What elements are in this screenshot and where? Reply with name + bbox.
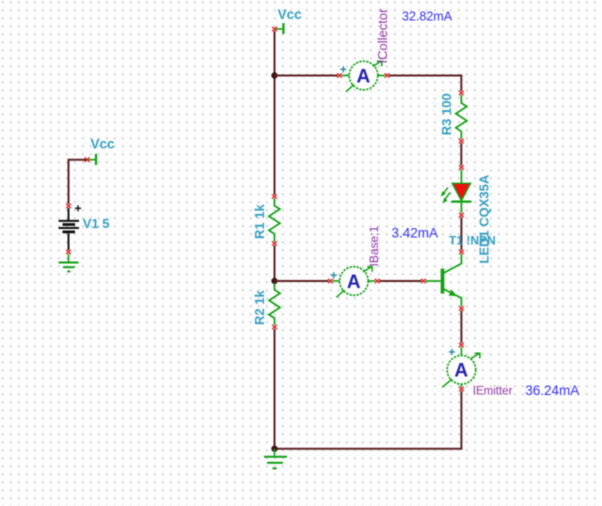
wire R3 to LED1 <box>460 143 462 166</box>
wire T1 emitter to ammeter AM3 <box>460 311 462 344</box>
svg-text:Vcc: Vcc <box>91 137 116 152</box>
wire base junction to ammeter AM2 <box>275 280 329 282</box>
svg-text:IBase:1: IBase:1 <box>367 225 381 266</box>
resistor R3 <box>456 91 467 143</box>
junction bottom node <box>271 446 277 452</box>
junction top-left node <box>271 72 277 78</box>
wire AM2 to T1 base <box>379 280 421 282</box>
svg-text:36.24mA: 36.24mA <box>525 383 579 398</box>
wire AM3 to bottom rail corner <box>460 391 462 449</box>
svg-text:R3 100: R3 100 <box>439 93 454 135</box>
svg-text:A: A <box>347 272 361 293</box>
svg-text:32.82mA: 32.82mA <box>402 10 453 24</box>
transistor T1 <box>421 250 464 311</box>
wire R1 to base junction <box>274 246 276 282</box>
svg-text:R2 1k: R2 1k <box>252 290 267 325</box>
resistor R1 <box>269 194 280 245</box>
ammeter AM2 (IBase) <box>328 267 380 298</box>
svg-text:IEmitter: IEmitter <box>473 386 513 398</box>
power terminal Vcc (top) <box>272 23 283 34</box>
svg-text:R1 1k: R1 1k <box>252 204 267 239</box>
resistor R2 <box>269 283 280 329</box>
wire Vcc-left terminal to V1 plus <box>69 160 87 204</box>
led LED1 <box>441 165 472 217</box>
svg-text:3.42mA: 3.42mA <box>392 226 439 241</box>
wire Vcc-top down to top junction and on to R1 <box>274 31 276 195</box>
wire AM1 to R3 <box>389 76 461 92</box>
wire LED1 to T1 collector <box>460 217 462 250</box>
svg-text:LED1 CQX35A: LED1 CQX35A <box>476 174 491 263</box>
svg-text:V1 5: V1 5 <box>83 216 110 231</box>
wire bottom rail <box>275 448 463 450</box>
svg-text:A: A <box>357 66 371 87</box>
svg-text:T1 !NPN: T1 !NPN <box>449 233 496 247</box>
ground (below V1) <box>59 254 79 271</box>
ground (bottom) <box>264 449 287 469</box>
svg-text:A: A <box>454 361 468 382</box>
wire top junction to ammeter AM1 <box>275 75 338 77</box>
svg-text:ICollector: ICollector <box>375 8 390 64</box>
ammeter AM3 (IEmitter) <box>442 343 480 391</box>
svg-text:Vcc: Vcc <box>278 7 303 22</box>
junction base node <box>271 278 277 284</box>
ammeter AM1 (ICollector) <box>337 61 389 92</box>
wire R2 to bottom junction <box>274 329 276 449</box>
voltage source V1 <box>59 204 82 254</box>
power terminal Vcc (left) <box>85 154 96 165</box>
